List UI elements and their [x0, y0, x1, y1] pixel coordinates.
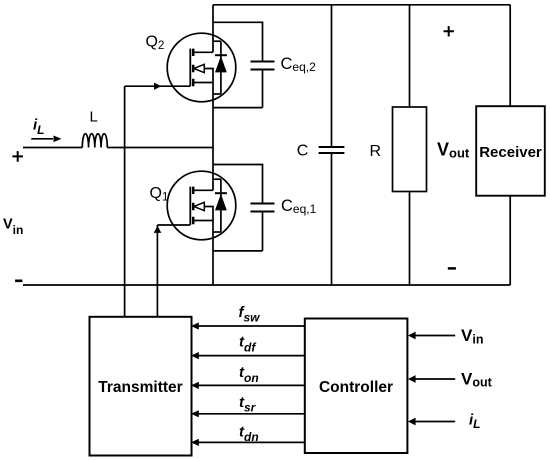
svg-text:tsr: tsr [239, 394, 257, 415]
svg-text:Ceq,2: Ceq,2 [281, 55, 317, 74]
svg-text:Q1: Q1 [150, 185, 169, 204]
capacitor Ceq1 [213, 165, 275, 251]
receiver box [476, 106, 545, 196]
transmitter box [90, 317, 192, 456]
svg-text:Vout: Vout [437, 139, 470, 160]
wire mid node to Q1 drain [212, 148, 214, 191]
minus sign Vout [448, 267, 456, 270]
wire gate drive Q1 horizontal [157, 224, 190, 226]
svg-text:tdf: tdf [239, 334, 256, 355]
capacitor C [319, 147, 345, 153]
transistor Q2 [167, 33, 236, 102]
arrowhead gate Q1 [154, 226, 162, 233]
svg-text:Q2: Q2 [146, 34, 165, 53]
wire capacitor C bottom [331, 153, 333, 285]
minus sign Vin [15, 279, 22, 282]
svg-text:R: R [370, 143, 382, 160]
current arrow iL [31, 138, 53, 140]
wire top rail [213, 4, 510, 6]
inductor L [82, 134, 107, 148]
capacitor Ceq2 [213, 22, 275, 107]
svg-text:fsw: fsw [239, 304, 261, 325]
input wire iL [414, 421, 455, 423]
wire inductor to mosfet node [107, 147, 213, 149]
plus sign Vout [444, 26, 454, 36]
wire R branch bottom [409, 192, 411, 286]
svg-text:Vout: Vout [461, 370, 493, 390]
signal wire tsr [197, 413, 305, 415]
plus sign Vin [12, 151, 23, 162]
signal wire fsw [197, 325, 305, 327]
svg-text:Controller: Controller [319, 379, 393, 396]
wire Q2 drain lead [212, 5, 214, 53]
svg-text:C: C [297, 143, 309, 160]
svg-text:Vin: Vin [461, 326, 483, 347]
signal wire tdn [197, 441, 305, 443]
svg-text:iL: iL [469, 411, 481, 430]
wire input left [23, 147, 82, 149]
arrowhead gate Q2 [154, 83, 161, 90]
svg-text:Receiver: Receiver [479, 144, 542, 161]
svg-text:L: L [90, 109, 98, 126]
wire Q2 source to mid node [212, 83, 214, 148]
svg-text:tdn: tdn [239, 423, 259, 444]
wire receiver branch top [509, 5, 511, 106]
controller box [305, 319, 408, 454]
wire gate drive Q2 vertical [124, 86, 126, 316]
wire receiver branch bottom [509, 196, 511, 285]
svg-text:iL: iL [33, 117, 45, 137]
input wire Vout [414, 378, 455, 380]
wire gate drive Q1 vertical [156, 225, 158, 316]
signal wire tdf [197, 355, 305, 357]
wire bottom rail [23, 284, 510, 286]
capacitor C branch top [331, 5, 333, 147]
transistor Q1 [167, 171, 236, 240]
svg-text:Ceq,1: Ceq,1 [281, 197, 317, 216]
signal wire ton [197, 384, 305, 386]
resistor R [393, 107, 427, 192]
svg-text:Vin: Vin [3, 217, 23, 237]
wire R branch top [409, 5, 411, 107]
svg-text:Transmitter: Transmitter [98, 379, 182, 396]
input wire Vin [414, 335, 455, 337]
wire Q1 source to bottom rail [212, 221, 214, 286]
svg-text:ton: ton [239, 364, 259, 385]
wire gate drive Q2 horizontal [125, 85, 191, 87]
